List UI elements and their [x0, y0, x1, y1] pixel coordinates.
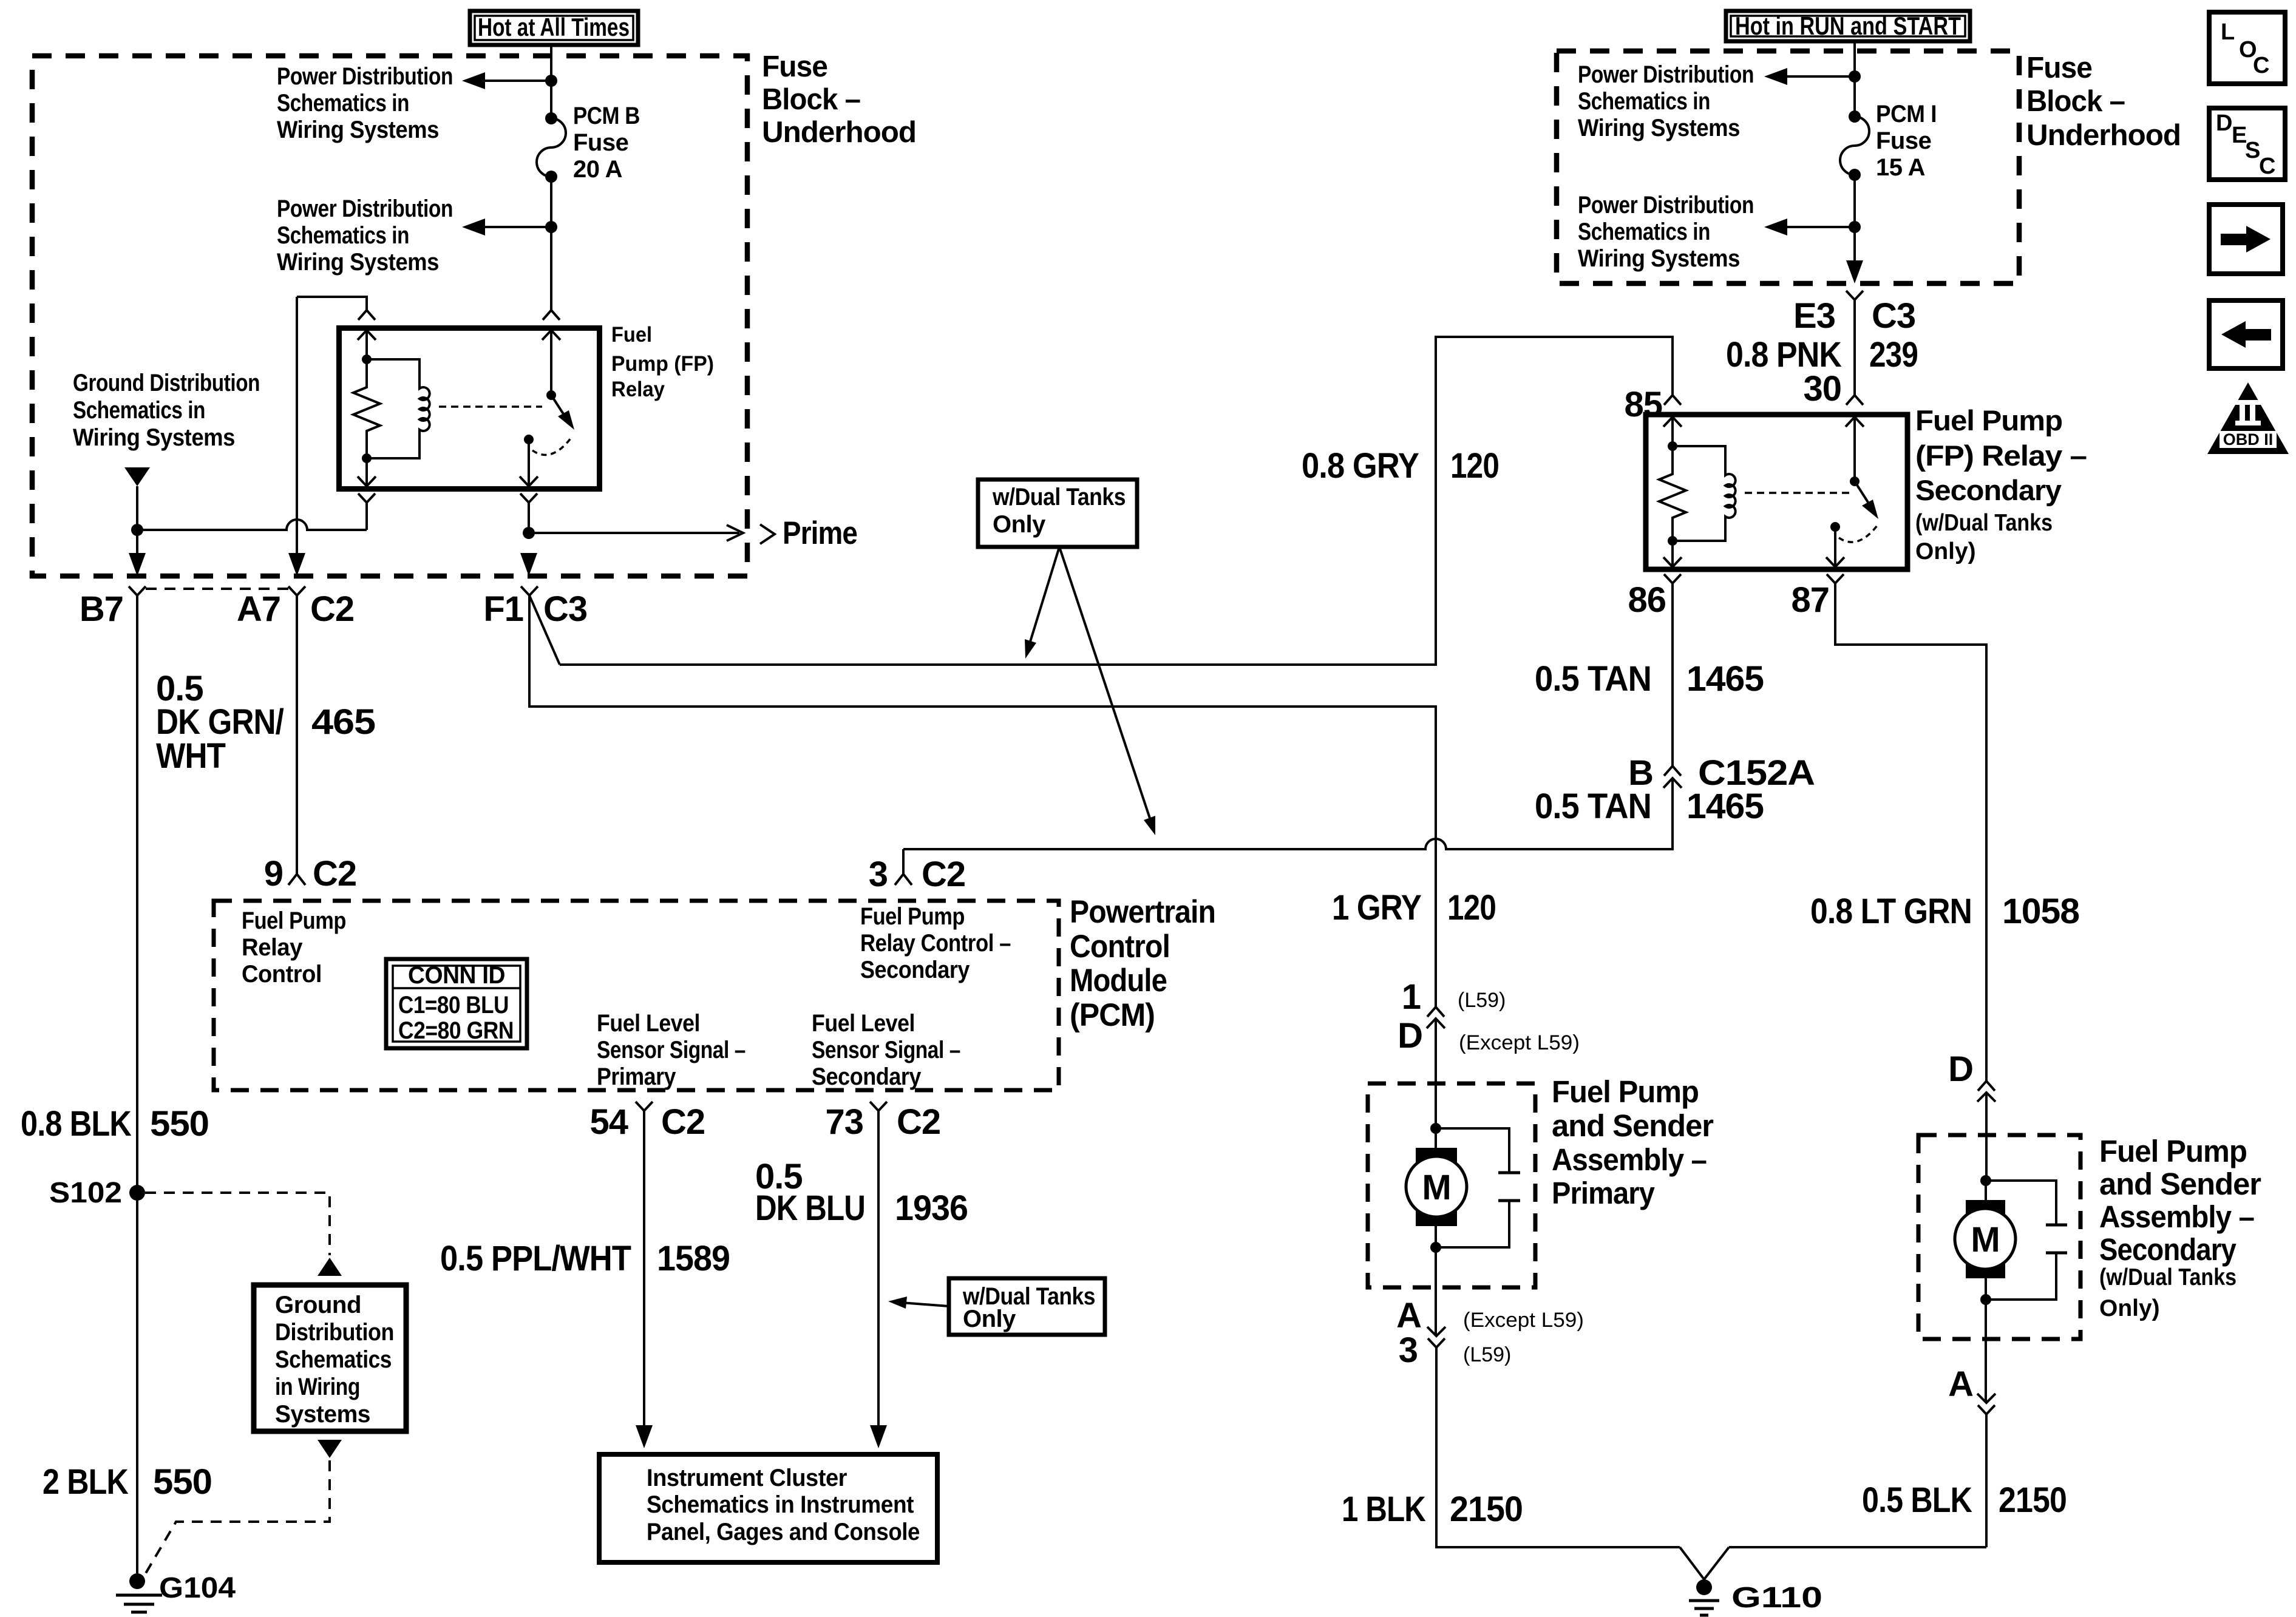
ground distribution source triangle: [124, 467, 150, 486]
svg-text:Assembly –: Assembly –: [1552, 1142, 1707, 1177]
terminal chevron at secondary relay pin 30: [1846, 395, 1863, 405]
svg-text:Block –: Block –: [762, 83, 860, 116]
sidebar icon: back arrow box: [2209, 300, 2283, 368]
wire: branch to power distribution (lower arrow): [1787, 226, 1855, 228]
svg-text:Fuel Pump: Fuel Pump: [860, 903, 965, 930]
fuse block underhood (right) dashed enclosure: [1557, 51, 2019, 283]
terminal chevron PCM pin 3: [895, 874, 912, 885]
svg-text:1589: 1589: [657, 1239, 730, 1278]
label box "Hot at All Times": [470, 11, 638, 45]
svg-text:Wiring Systems: Wiring Systems: [73, 424, 235, 451]
svg-text:PCM B: PCM B: [573, 103, 640, 129]
svg-text:1058: 1058: [2002, 892, 2079, 931]
wire: pin 86 TAN drop: [1671, 583, 1674, 766]
wire: TAN drop to PCM pin 3: [902, 849, 905, 874]
wire: fuse output down: [1853, 175, 1856, 260]
svg-text:Only): Only): [1915, 538, 1976, 564]
arrowhead A7 exits fuse block: [288, 553, 305, 576]
svg-text:Distribution: Distribution: [275, 1319, 394, 1346]
svg-text:2150: 2150: [1999, 1480, 2067, 1520]
svg-text:Fuse: Fuse: [573, 129, 628, 156]
sidebar icon: LOC box: [2209, 12, 2285, 84]
node: coil/resistor top junction: [362, 354, 372, 364]
svg-text:Prime: Prime: [783, 515, 857, 551]
wire: into secondary pump assembly: [1985, 1093, 1988, 1181]
sidebar icon: OBD II triangle: [2207, 382, 2289, 454]
terminal chevron below relay (coil return): [358, 493, 375, 530]
callout box "w/Dual Tanks Only" (lower): [949, 1278, 1105, 1335]
relay switch common pin arrow (inside): [542, 330, 560, 395]
svg-text:Wiring Systems: Wiring Systems: [1578, 245, 1740, 272]
wire: prime feed: [529, 532, 739, 534]
svg-text:Primary: Primary: [597, 1063, 676, 1090]
svg-text:in Wiring: in Wiring: [275, 1374, 360, 1400]
label "Fuel Pump and Sender Assembly - Secondary (w/Dual Tanks Only)": [2099, 1134, 2261, 1321]
relay pin arrow (coil bottom, inside K2): [1663, 541, 1682, 567]
node S102 splice: [129, 1185, 145, 1201]
svg-text:Fuel Pump: Fuel Pump: [1552, 1074, 1699, 1109]
wire: TAN below C152A to PCM pin 3 bus with hop over GRY: [903, 778, 1673, 849]
svg-text:Fuel Pump: Fuel Pump: [2099, 1134, 2247, 1168]
wire: B7 riser from triangle: [136, 486, 138, 553]
callout arrow to 73 wire: [888, 1297, 949, 1309]
fuse block underhood (left) dashed enclosure: [32, 56, 747, 576]
callout arrow to TAN bus: [1059, 547, 1155, 835]
connector link dashed B7-A7: [146, 588, 288, 590]
svg-text:Systems: Systems: [275, 1401, 370, 1428]
terminal chevron below K2 (pin 87): [1827, 574, 1844, 583]
arrowhead B7 exits fuse block: [129, 553, 146, 576]
svg-text:Relay: Relay: [242, 934, 303, 961]
svg-text:3: 3: [869, 855, 888, 894]
svg-text:C3: C3: [543, 589, 587, 629]
value label "PCM B Fuse 20 A": [573, 103, 640, 183]
inductor coil of K2: [1673, 446, 1736, 541]
arrowhead to power distribution: [462, 72, 485, 89]
node: K2 switch pivot: [1850, 476, 1860, 486]
svg-text:E3: E3: [1793, 296, 1835, 336]
wire: coil return to B7 bus with hop over A7 riser: [137, 520, 367, 530]
svg-text:Relay: Relay: [611, 378, 665, 401]
svg-text:Module: Module: [1070, 963, 1167, 998]
wire: secondary pump return to connector A: [1985, 1300, 1987, 1403]
svg-text:1 GRY: 1 GRY: [1332, 888, 1421, 927]
wire: B7 ground riser to G104: [136, 595, 138, 1573]
wire label "0.5 DK GRN/WHT": [156, 669, 284, 776]
svg-text:(Except L59): (Except L59): [1463, 1309, 1584, 1332]
svg-text:and Sender: and Sender: [1552, 1108, 1714, 1143]
svg-text:Fuel Pump: Fuel Pump: [242, 907, 346, 934]
relay pin arrow (coil top, inside K2): [1663, 417, 1682, 446]
svg-text:1465: 1465: [1686, 659, 1764, 699]
value label "PCM I Fuse 15 A": [1876, 101, 1937, 181]
svg-text:Pump (FP): Pump (FP): [611, 352, 714, 376]
node: K2 switch output contact: [1830, 522, 1840, 532]
wire: pump return to connector A/3: [1435, 1247, 1437, 1336]
wire: battery feed into fuse: [550, 45, 552, 118]
svg-text:120: 120: [1447, 888, 1496, 927]
svg-text:(w/Dual Tanks: (w/Dual Tanks: [2099, 1264, 2237, 1290]
label "Fuel Pump (FP) Relay - Secondary (w/Dual Tanks Only)": [1915, 404, 2087, 564]
relay pin arrow (switch output, inside): [520, 439, 538, 486]
svg-text:A7: A7: [237, 589, 280, 629]
wire: ground bus V-dip at G110: [1680, 1547, 1729, 1579]
arrowhead (open) prime feed: [727, 525, 743, 541]
svg-text:(FP) Relay –: (FP) Relay –: [1915, 439, 2087, 472]
svg-text:Fuel Level: Fuel Level: [597, 1010, 700, 1037]
svg-text:Schematics in: Schematics in: [1578, 88, 1710, 115]
note box "Ground Distribution Schematics in Wiring Systems": [254, 1285, 406, 1431]
K2 armature linkage (dashed): [1745, 492, 1850, 494]
svg-text:(Except L59): (Except L59): [1459, 1031, 1580, 1054]
svg-text:G104: G104: [159, 1572, 236, 1604]
svg-text:Schematics in: Schematics in: [1578, 219, 1710, 245]
PCM function label "Fuel Level Sensor Signal - Primary": [597, 1010, 746, 1090]
svg-text:DK BLU: DK BLU: [755, 1188, 865, 1228]
wire: upper gray bus to relay pin 85 (secondary): [560, 337, 1673, 665]
svg-text:Block –: Block –: [2026, 85, 2125, 118]
note "Power Distribution Schematics in Wiring Systems" (right upper): [1578, 61, 1754, 141]
svg-text:C2: C2: [310, 589, 354, 629]
svg-text:Fuel: Fuel: [611, 323, 652, 347]
svg-text:Schematics: Schematics: [275, 1346, 392, 1373]
triangle into ground distribution box (up): [318, 1258, 342, 1276]
svg-text:Secondary: Secondary: [812, 1063, 922, 1090]
switch blade with arrowhead: [551, 395, 574, 430]
node: coil/resistor bottom junction: [362, 453, 372, 463]
svg-text:2 BLK: 2 BLK: [42, 1462, 129, 1502]
svg-text:0.8 BLK: 0.8 BLK: [21, 1104, 132, 1144]
svg-text:20 A: 20 A: [573, 156, 622, 183]
wire: coil feed corner from A7 riser: [297, 297, 367, 310]
svg-text:Schematics in: Schematics in: [277, 90, 409, 117]
svg-text:Power Distribution: Power Distribution: [277, 63, 453, 90]
svg-text:C2: C2: [313, 854, 356, 893]
label box "Hot in RUN and START": [1726, 11, 1970, 41]
svg-text:2150: 2150: [1450, 1490, 1523, 1529]
ground G104: [116, 1573, 162, 1612]
arrowhead into instrument cluster (73): [870, 1425, 887, 1448]
inductor coil of relay: [367, 359, 430, 458]
svg-text:C2: C2: [922, 855, 965, 894]
PCM function label "Fuel Pump Relay Control": [242, 907, 346, 988]
svg-text:0.8 GRY: 0.8 GRY: [1302, 446, 1419, 486]
svg-text:1 BLK: 1 BLK: [1342, 1490, 1426, 1529]
wire: F1 diagonal to upper gray bus: [529, 595, 560, 665]
note "Power Distribution Schematics in Wiring Systems" (lower): [277, 195, 453, 276]
label "Powertrain Control Module (PCM)": [1070, 894, 1215, 1033]
label "Fuse Block - Underhood" (right): [2026, 52, 2181, 152]
dashed branch back to G104: [144, 1460, 330, 1576]
svg-text:Wiring Systems: Wiring Systems: [1578, 115, 1740, 141]
svg-text:Secondary: Secondary: [1915, 474, 2062, 506]
svg-text:Only: Only: [963, 1306, 1016, 1332]
fuse F2 "PCM I Fuse 15 A" symbol: [1840, 110, 1869, 181]
svg-text:Assembly –: Assembly –: [2099, 1199, 2254, 1234]
relay armature linkage (dashed): [439, 405, 542, 408]
wire: into primary pump assembly: [1435, 1019, 1437, 1128]
svg-text:A: A: [1948, 1364, 1973, 1404]
relay K2: Fuel Pump (FP) Relay - Secondary box: [1646, 415, 1907, 569]
terminal chevron at relay coil feed pin: [358, 310, 375, 320]
resistor (K2 coil suppression): [1659, 446, 1686, 541]
svg-text:Schematics in: Schematics in: [73, 397, 205, 424]
svg-text:Instrument Cluster: Instrument Cluster: [647, 1465, 847, 1491]
fuel level sender (primary) plates: [1436, 1128, 1520, 1247]
node: junction dot on feed: [545, 75, 557, 87]
connector Y terminal B7: [129, 586, 146, 595]
arrowhead E3 exits fuse block: [1846, 260, 1863, 283]
node: junction dot lower branch: [545, 221, 557, 233]
node: junction pump motor / sender secondary (top): [1980, 1175, 1991, 1186]
svg-text:73: 73: [825, 1102, 863, 1142]
wire: A7 down to PCM pin 9: [296, 595, 298, 874]
fuel level sender (secondary) plates: [1986, 1181, 2067, 1300]
svg-text:86: 86: [1628, 580, 1666, 620]
svg-text:(PCM): (PCM): [1070, 997, 1155, 1033]
arrowhead into instrument cluster (54): [636, 1425, 653, 1448]
svg-text:550: 550: [153, 1462, 212, 1502]
svg-text:(L59): (L59): [1463, 1343, 1511, 1366]
svg-text:1936: 1936: [895, 1188, 968, 1228]
sidebar icon: forward arrow box: [2209, 205, 2283, 274]
inline connector chevrons (1 / D) primary pump: [1427, 1007, 1445, 1028]
svg-text:C2: C2: [661, 1102, 705, 1142]
inline connector chevrons (A / 3) primary: [1427, 1327, 1445, 1347]
relay K1: Fuel Pump (FP) Relay box: [339, 328, 600, 489]
relay pin arrow (coil top, inside): [358, 330, 376, 359]
label "Fuel Pump (FP) Relay": [611, 323, 714, 401]
wire: branch to power distribution (lower left arrow): [485, 226, 551, 228]
terminal chevron below relay (switch output): [520, 493, 537, 533]
dashed branch from S102 to ground distribution note: [145, 1193, 330, 1255]
svg-text:Only): Only): [2099, 1295, 2160, 1321]
svg-text:Fuse: Fuse: [762, 50, 827, 83]
node: junction to Prime / F1: [523, 527, 535, 539]
svg-text:Control: Control: [242, 961, 322, 988]
relay switch common pin arrow (inside K2): [1846, 417, 1864, 481]
svg-text:G110: G110: [1731, 1582, 1822, 1614]
connector Y terminal F1: [521, 586, 538, 595]
inline connector C152A pin B (chevrons): [1663, 766, 1682, 788]
ground G110: [1689, 1579, 1719, 1615]
svg-text:Wiring Systems: Wiring Systems: [277, 117, 439, 143]
wire: ground bus to secondary return: [1729, 1546, 1986, 1548]
note box "Instrument Cluster Schematics...": [599, 1454, 937, 1562]
arrowhead F1 exits fuse block: [520, 553, 537, 576]
terminal chevron below K2 (pin 86): [1664, 574, 1681, 583]
svg-text:0.5 TAN: 0.5 TAN: [1535, 659, 1651, 699]
node: junction pump motor / sender (bottom): [1430, 1242, 1441, 1253]
terminal chevron at relay pin 30 feed: [543, 310, 560, 320]
CONN ID legend box: [386, 959, 527, 1048]
label "Fuse Block - Underhood" (left): [762, 50, 916, 149]
node: junction pump motor / sender (top): [1430, 1123, 1441, 1134]
svg-text:Only: Only: [993, 511, 1046, 538]
wire: branch to power distribution (upper left arrow): [485, 80, 551, 82]
off-page chevron "Prime": [760, 524, 775, 544]
svg-text:A: A: [1396, 1296, 1421, 1335]
wire: fuel level sensor signal primary to cluster: [643, 1111, 645, 1428]
svg-text:Wiring Systems: Wiring Systems: [277, 249, 439, 276]
terminal chevron at secondary relay pin 85: [1664, 395, 1681, 405]
node: junction dot on feed: [1849, 70, 1861, 83]
node: switch output contact: [524, 435, 534, 444]
svg-text:Fuse: Fuse: [2026, 52, 2092, 84]
svg-text:Primary: Primary: [1552, 1176, 1655, 1210]
arrowhead to power distribution: [1764, 219, 1787, 236]
svg-text:M: M: [1422, 1168, 1450, 1207]
K2 switch blade with arrowhead: [1855, 481, 1878, 519]
wire: ignition feed into fuse: [1853, 43, 1856, 117]
svg-text:Power Distribution: Power Distribution: [1578, 192, 1754, 219]
node: K2 coil/resistor bottom junction: [1668, 536, 1677, 546]
connector Y terminal A7: [288, 586, 305, 595]
node: K2 coil/resistor top junction: [1668, 441, 1677, 451]
svg-text:Fuel Level: Fuel Level: [812, 1010, 915, 1037]
wire: secondary BLK return to ground bus: [1985, 1414, 1988, 1547]
callout box "w/Dual Tanks Only" (upper): [978, 480, 1137, 547]
svg-text:OBD II: OBD II: [2223, 430, 2274, 449]
wire: fuel level sensor signal secondary to cluster: [877, 1111, 880, 1428]
resistor (relay coil suppression): [353, 359, 380, 458]
svg-text:C: C: [2253, 53, 2269, 78]
callout arrow to upper gray bus: [1025, 547, 1059, 659]
svg-text:C1=80 BLU: C1=80 BLU: [398, 992, 509, 1019]
wire: pin 87 LT GRN run: [1835, 583, 1986, 1081]
connector Y terminal PCM pin 54: [636, 1102, 653, 1111]
svg-text:Ground: Ground: [275, 1292, 361, 1318]
connector Y terminal PCM pin 73: [870, 1102, 887, 1111]
svg-text:465: 465: [311, 702, 375, 742]
svg-text:C2=80 GRN: C2=80 GRN: [398, 1017, 514, 1044]
inline connector chevrons (A) secondary: [1977, 1394, 1995, 1414]
relay pin arrow (coil bottom, inside): [358, 458, 376, 486]
svg-text:Fuse: Fuse: [1876, 127, 1931, 154]
connector Y terminal E3/C3: [1846, 291, 1863, 300]
svg-text:54: 54: [589, 1102, 628, 1142]
node: junction pump motor / sender secondary (bottom): [1980, 1294, 1991, 1305]
svg-text:F1: F1: [483, 589, 523, 629]
node: switch pivot: [546, 390, 556, 400]
svg-text:Panel, Gages and Console: Panel, Gages and Console: [647, 1519, 920, 1545]
fuel pump and sender assembly secondary dashed enclosure: [1918, 1135, 2080, 1339]
svg-text:(w/Dual Tanks: (w/Dual Tanks: [1915, 510, 2053, 536]
svg-text:120: 120: [1450, 446, 1499, 486]
svg-text:CONN ID: CONN ID: [408, 962, 505, 989]
motor M1 (primary fuel pump): [1406, 1128, 1467, 1247]
switch travel arc (dashed): [532, 438, 571, 455]
svg-text:550: 550: [150, 1104, 209, 1144]
terminal chevron PCM pin 9: [288, 874, 305, 885]
svg-text:PCM I: PCM I: [1876, 101, 1937, 127]
note "Ground Distribution Schematics in Wiring Systems": [73, 370, 260, 451]
svg-text:Schematics in: Schematics in: [277, 222, 409, 249]
svg-text:C: C: [2259, 154, 2275, 179]
PCM dashed enclosure: [214, 901, 1059, 1090]
svg-text:Ground Distribution: Ground Distribution: [73, 370, 260, 396]
wire: fuse output down: [550, 177, 552, 310]
fuse F1 "PCM B Fuse 20 A" symbol: [537, 112, 566, 183]
triangle out of ground distribution box (down): [318, 1440, 342, 1458]
svg-text:0.5 PPL/WHT: 0.5 PPL/WHT: [440, 1239, 631, 1278]
relay pin arrow (switch output, inside K2): [1826, 527, 1844, 567]
svg-text:D: D: [2216, 110, 2232, 136]
svg-text:Schematics in Instrument: Schematics in Instrument: [647, 1491, 914, 1518]
PCM function label "Fuel Pump Relay Control - Secondary": [860, 903, 1011, 983]
svg-text:Relay Control –: Relay Control –: [860, 930, 1011, 957]
note "Power Distribution Schematics in Wiring Systems" (upper): [277, 63, 453, 143]
wire: branch to power distribution (upper arrow): [1787, 75, 1855, 78]
svg-text:D: D: [1398, 1016, 1422, 1056]
svg-text:WHT: WHT: [156, 736, 226, 776]
svg-text:30: 30: [1803, 369, 1841, 408]
svg-text:Hot at All Times: Hot at All Times: [478, 13, 630, 41]
node: junction dot lower branch: [1849, 221, 1861, 233]
PCM function label "Fuel Level Sensor Signal - Secondary": [812, 1010, 960, 1090]
svg-text:(L59): (L59): [1458, 989, 1506, 1012]
svg-text:1: 1: [1402, 977, 1421, 1017]
arrowhead to power distribution: [1764, 68, 1787, 85]
svg-text:87: 87: [1791, 580, 1829, 620]
svg-text:w/Dual Tanks: w/Dual Tanks: [992, 484, 1126, 510]
svg-text:B7: B7: [80, 589, 123, 629]
svg-text:0.8 LT GRN: 0.8 LT GRN: [1810, 892, 1972, 931]
svg-text:L: L: [2221, 19, 2235, 45]
svg-text:Powertrain: Powertrain: [1070, 894, 1215, 930]
K2 switch travel arc (dashed): [1839, 526, 1877, 542]
svg-text:1465: 1465: [1686, 787, 1764, 826]
svg-text:Secondary: Secondary: [2099, 1232, 2237, 1267]
arrowhead to power distribution: [462, 219, 485, 236]
svg-text:3: 3: [1399, 1331, 1418, 1370]
svg-text:Fuel Pump: Fuel Pump: [1915, 404, 2062, 436]
svg-text:Control: Control: [1070, 929, 1170, 964]
node: junction at B7 riser: [131, 524, 143, 536]
svg-text:S: S: [2245, 138, 2260, 163]
note "Power Distribution Schematics in Wiring Systems" (right lower): [1578, 192, 1754, 272]
wire: F1 drop to lower gray bus: [529, 595, 1436, 1007]
svg-text:Sensor Signal –: Sensor Signal –: [597, 1037, 746, 1063]
wire label "0.5 DK BLU": [755, 1157, 865, 1228]
svg-text:and Sender: and Sender: [2099, 1167, 2261, 1201]
svg-text:D: D: [1948, 1049, 1973, 1089]
wire: primary BLK return to G110: [1436, 1347, 1680, 1547]
svg-text:Power Distribution: Power Distribution: [277, 195, 453, 222]
label "Fuel Pump and Sender Assembly - Primary": [1552, 1074, 1714, 1210]
svg-text:Power Distribution: Power Distribution: [1578, 61, 1754, 88]
sidebar icon: DESC box: [2209, 108, 2285, 180]
svg-text:Underhood: Underhood: [762, 116, 916, 149]
svg-text:239: 239: [1869, 335, 1918, 375]
svg-text:Sensor Signal –: Sensor Signal –: [812, 1037, 960, 1063]
svg-text:S102: S102: [49, 1177, 122, 1209]
svg-text:C3: C3: [1872, 296, 1915, 336]
motor M2 (secondary fuel pump): [1955, 1181, 2016, 1300]
svg-text:M: M: [1971, 1220, 1999, 1259]
svg-text:Hot in RUN and START: Hot in RUN and START: [1735, 12, 1961, 40]
svg-text:C2: C2: [897, 1102, 940, 1142]
svg-text:Secondary: Secondary: [860, 957, 970, 983]
svg-text:0.5 TAN: 0.5 TAN: [1535, 787, 1651, 826]
svg-text:9: 9: [264, 854, 283, 893]
wire: A7 riser: [296, 297, 298, 553]
svg-text:0.5 BLK: 0.5 BLK: [1862, 1480, 1972, 1520]
svg-text:15 A: 15 A: [1876, 154, 1925, 181]
fuel pump and sender assembly primary dashed enclosure: [1368, 1083, 1535, 1287]
wire: PNK feed to relay pin 30: [1853, 300, 1856, 395]
svg-text:Underhood: Underhood: [2026, 119, 2181, 152]
